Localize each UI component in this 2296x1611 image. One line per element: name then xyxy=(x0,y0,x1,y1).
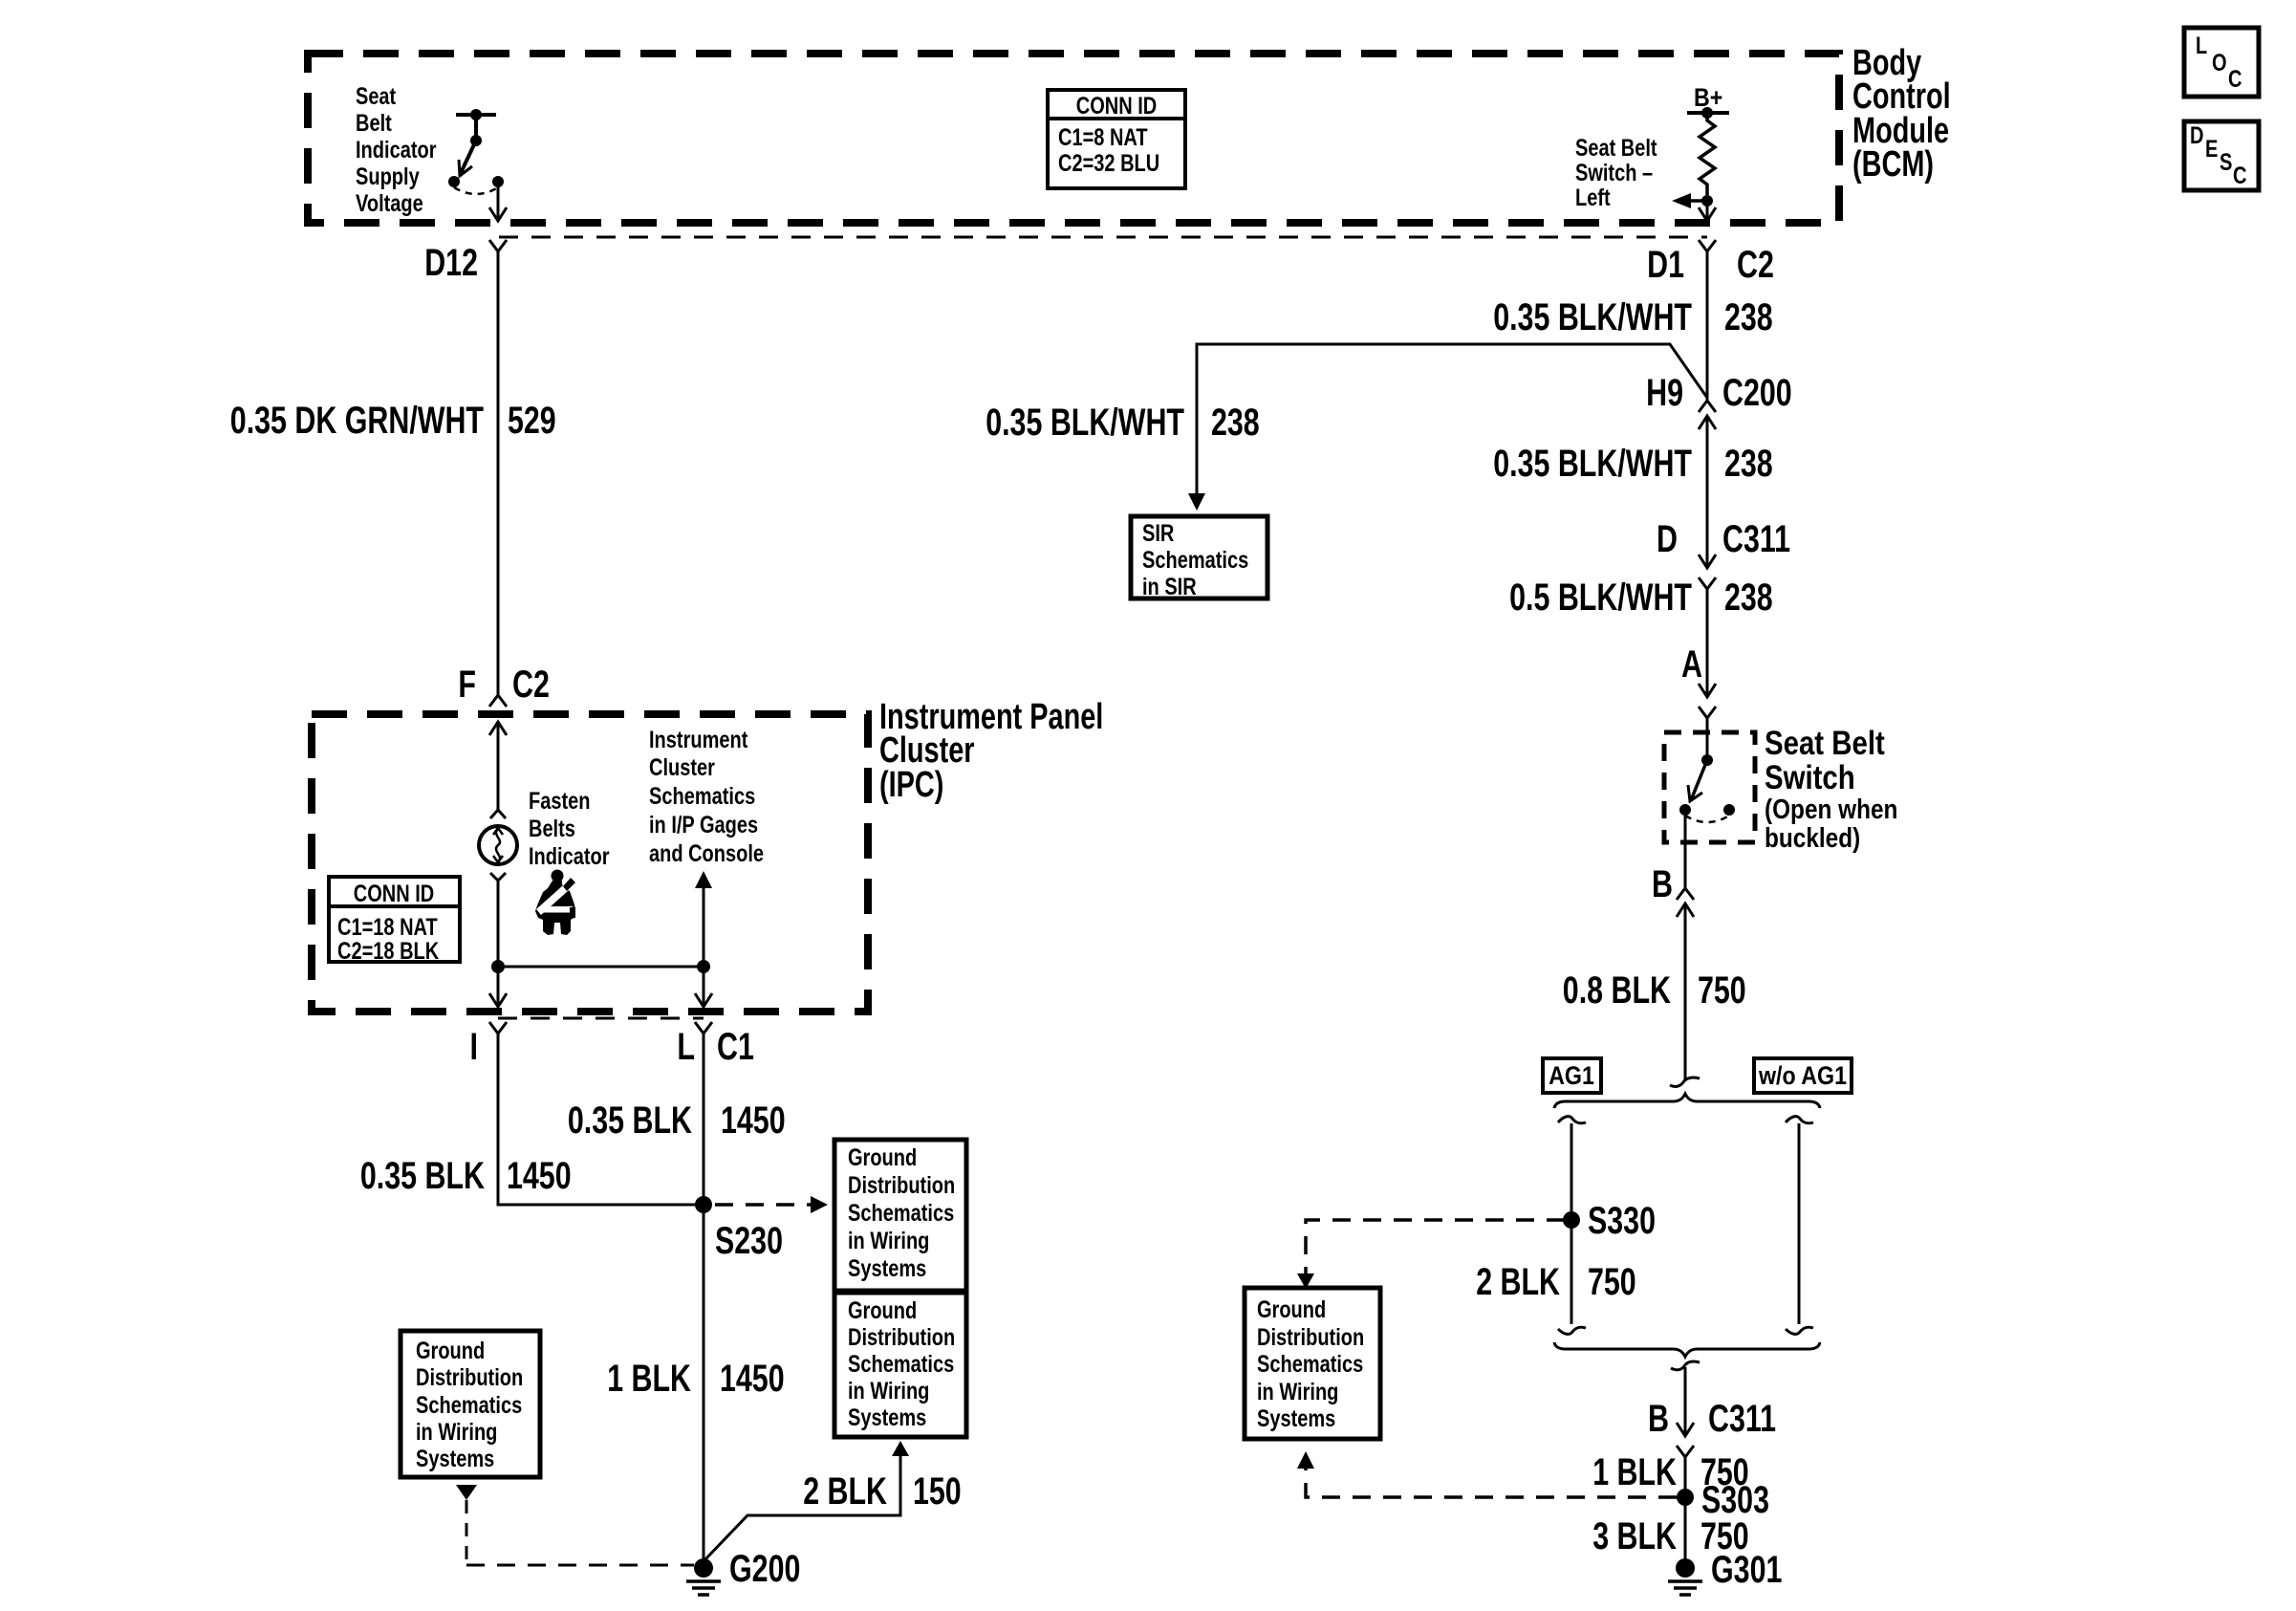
svg-text:529: 529 xyxy=(508,400,556,442)
svg-text:Systems: Systems xyxy=(848,1404,926,1431)
wire label 2 BLK 750 xyxy=(1476,1261,1636,1303)
svg-text:0.5 BLK/WHT: 0.5 BLK/WHT xyxy=(1509,577,1692,619)
svg-text:C2: C2 xyxy=(1737,244,1774,286)
svg-text:AG1: AG1 xyxy=(1549,1061,1594,1090)
wire label 0.35 BLK 1450 (pin L branch) xyxy=(568,1099,786,1142)
Ground Distribution Schematics box (2 BLK branch) xyxy=(834,1293,966,1437)
inline connector C200 pin H9 xyxy=(1699,401,1716,429)
BCM connector interface dashed line xyxy=(499,236,1707,239)
svg-text:1450: 1450 xyxy=(721,1099,786,1142)
svg-text:H9: H9 xyxy=(1646,372,1683,414)
svg-text:L: L xyxy=(677,1026,695,1068)
svg-text:Ground: Ground xyxy=(1257,1296,1326,1323)
switch SW1 seat belt indicator supply voltage xyxy=(448,109,504,194)
option brace bottom xyxy=(1554,1342,1820,1357)
svg-text:C311: C311 xyxy=(1722,518,1790,560)
AG1 option tag box xyxy=(1543,1058,1601,1093)
svg-text:Switch –: Switch – xyxy=(1575,160,1653,186)
Ground Distribution Schematics box (G200) xyxy=(401,1331,540,1477)
wire label 0.35 DK GRN/WHT 529 xyxy=(230,400,556,442)
svg-text:w/o AG1: w/o AG1 xyxy=(1758,1061,1847,1090)
inline connector at pin A xyxy=(1699,684,1716,718)
pin label B xyxy=(1652,863,1673,905)
svg-text:Cluster: Cluster xyxy=(649,754,715,781)
connector cups below pins I and L xyxy=(489,1022,712,1034)
svg-text:Systems: Systems xyxy=(848,1255,926,1282)
svg-text:in Wiring: in Wiring xyxy=(1257,1379,1338,1405)
ground G301 symbol xyxy=(1668,1558,1702,1595)
wire label 1 BLK 1450 xyxy=(607,1358,784,1400)
CONN ID table IPC xyxy=(329,877,460,965)
wire from switch common to pin B xyxy=(1684,816,1687,888)
svg-text:F: F xyxy=(458,664,476,706)
svg-text:238: 238 xyxy=(1211,402,1260,444)
wire label 2 BLK 150 xyxy=(803,1470,962,1513)
wire label 0.35 BLK 1450 (pin I branch) xyxy=(360,1155,572,1197)
svg-text:A: A xyxy=(1681,643,1702,686)
switch SW2 contacts and arm xyxy=(1679,754,1735,822)
svg-text:C311: C311 xyxy=(1708,1398,1776,1440)
svg-text:C1=8 NAT: C1=8 NAT xyxy=(1058,124,1148,151)
Fasten Belts Indicator label xyxy=(529,788,610,870)
wire label 0.35 BLK/WHT 238 (SIR branch) xyxy=(986,402,1260,444)
svg-text:Belt: Belt xyxy=(356,110,392,137)
svg-text:O: O xyxy=(2212,50,2227,76)
AG1 branch wire with squiggles xyxy=(1558,1117,1586,1335)
svg-text:C: C xyxy=(2233,163,2247,189)
svg-text:0.35 DK GRN/WHT: 0.35 DK GRN/WHT xyxy=(230,400,484,442)
B+ bus bar with node xyxy=(1687,107,1729,119)
svg-text:Distribution: Distribution xyxy=(848,1324,955,1351)
svg-text:(Open when: (Open when xyxy=(1765,795,1897,825)
svg-text:Fasten: Fasten xyxy=(529,788,591,815)
wire 238 BLK/WHT from D1 to C200 xyxy=(1706,251,1709,400)
svg-text:Distribution: Distribution xyxy=(848,1172,955,1199)
svg-text:2 BLK: 2 BLK xyxy=(1476,1261,1560,1303)
pin D12 label xyxy=(424,242,478,284)
dashed reference from S303 to ground distribution box xyxy=(1297,1451,1677,1497)
svg-text:Schematics: Schematics xyxy=(848,1351,954,1378)
pin labels I L C1 xyxy=(470,1026,754,1068)
svg-text:1450: 1450 xyxy=(507,1155,572,1197)
svg-text:0.35 BLK/WHT: 0.35 BLK/WHT xyxy=(1493,296,1692,338)
wire from cluster reference to pin L xyxy=(703,888,705,1007)
BCM title label xyxy=(1852,43,1951,185)
svg-text:0.35 BLK: 0.35 BLK xyxy=(568,1099,692,1142)
connector cup at D12 xyxy=(489,240,507,251)
svg-text:C1=18 NAT: C1=18 NAT xyxy=(337,914,438,941)
svg-text:C2=18 BLK: C2=18 BLK xyxy=(337,938,439,965)
svg-text:Seat: Seat xyxy=(356,83,397,110)
wire label 3 BLK 750 xyxy=(1592,1515,1749,1557)
svg-text:750: 750 xyxy=(1698,969,1746,1012)
svg-text:Voltage: Voltage xyxy=(356,190,423,217)
connector F C2 symbol xyxy=(489,695,507,735)
wire from lamp to junction and pin I xyxy=(497,881,500,1007)
svg-text:C1: C1 xyxy=(717,1026,754,1068)
svg-text:D1: D1 xyxy=(1647,244,1684,286)
wire from connector A into seat belt switch xyxy=(1706,718,1709,760)
LOC tab box xyxy=(2184,28,2259,97)
pin labels B C311 (lower) xyxy=(1648,1398,1776,1440)
option brace top xyxy=(1554,1094,1820,1108)
svg-text:B: B xyxy=(1648,1398,1669,1440)
ground G200 symbol xyxy=(686,1558,721,1595)
pin labels D C311 xyxy=(1657,518,1790,560)
IPC module box (dashed) xyxy=(312,714,868,1012)
svg-text:1450: 1450 xyxy=(720,1358,785,1400)
inline connector C311 pin D xyxy=(1699,555,1716,589)
BCM input node with left arrow xyxy=(1672,193,1713,208)
svg-text:Supply: Supply xyxy=(356,163,420,190)
svg-text:0.35 BLK: 0.35 BLK xyxy=(360,1155,485,1197)
Seat Belt Indicator Supply Voltage label xyxy=(356,83,437,217)
wire 238 BLK/WHT from C200 to C311 xyxy=(1706,416,1709,567)
svg-text:Distribution: Distribution xyxy=(1257,1324,1364,1351)
branch wire to SIR schematics with triangle xyxy=(1188,344,1707,511)
wire 150 BLK branch from G200 to ground distribution xyxy=(704,1441,909,1561)
svg-text:G301: G301 xyxy=(1711,1549,1782,1591)
svg-text:Systems: Systems xyxy=(416,1446,494,1472)
CONN ID table BCM xyxy=(1048,90,1185,188)
inline connector at pin B xyxy=(1677,888,1694,917)
svg-text:Switch: Switch xyxy=(1765,759,1855,796)
svg-text:2 BLK: 2 BLK xyxy=(803,1470,887,1513)
svg-text:Seat Belt: Seat Belt xyxy=(1765,725,1885,762)
Instrument Cluster Schematics note xyxy=(649,727,764,867)
svg-text:Ground: Ground xyxy=(416,1338,485,1364)
svg-text:(IPC): (IPC) xyxy=(879,765,943,805)
wire label 0.35 BLK/WHT 238 (C200 to C311) xyxy=(1493,443,1773,485)
splice S230 junction dot and label xyxy=(695,1196,783,1262)
svg-text:S230: S230 xyxy=(715,1220,783,1262)
svg-text:Schematics: Schematics xyxy=(1257,1351,1363,1378)
switch SW2 Seat Belt Switch box (dashed) xyxy=(1664,732,1755,842)
svg-text:Indicator: Indicator xyxy=(529,843,610,870)
wire 750 BLK 1 from C311 to S303 xyxy=(1684,1457,1687,1497)
resistor R1 seat belt switch pull-up xyxy=(1700,113,1715,195)
svg-text:and Console: and Console xyxy=(649,840,764,867)
wire 238 BLK/WHT 0.5 from C311 to switch pin A xyxy=(1706,589,1709,696)
ground G200 label xyxy=(729,1548,800,1590)
svg-text:Schematics: Schematics xyxy=(416,1392,522,1419)
wire from SW1 to BCM pin D12 with arrow xyxy=(489,182,507,221)
ground G301 label xyxy=(1711,1549,1782,1591)
IPC title label xyxy=(879,697,1103,805)
splice S303 junction dot and label xyxy=(1677,1479,1769,1521)
svg-text:in SIR: in SIR xyxy=(1142,574,1197,600)
SIR Schematics in SIR box xyxy=(1131,516,1267,600)
svg-text:238: 238 xyxy=(1724,296,1773,338)
Seat Belt Switch title xyxy=(1765,725,1897,854)
wire continuation squiggle above option brace xyxy=(1670,1078,1700,1086)
IPC bottom connector dashed line xyxy=(498,1017,704,1020)
reference triangle to cluster schematics xyxy=(695,871,712,888)
svg-text:C: C xyxy=(2228,66,2242,93)
seat belt pictogram icon xyxy=(535,870,576,936)
svg-text:Indicator: Indicator xyxy=(356,137,437,163)
svg-text:SIR: SIR xyxy=(1142,520,1174,547)
splice S330 junction dot and label xyxy=(1563,1200,1656,1242)
svg-text:Ground: Ground xyxy=(848,1144,917,1171)
svg-text:buckled): buckled) xyxy=(1765,823,1860,854)
IPC pin L arrow xyxy=(695,993,712,1007)
svg-text:0.8 BLK: 0.8 BLK xyxy=(1563,969,1671,1012)
pin labels D1 C2 xyxy=(1647,244,1774,286)
svg-text:238: 238 xyxy=(1724,443,1773,485)
dashed reference from S230 to ground distribution box xyxy=(715,1196,828,1213)
svg-text:0.35 BLK/WHT: 0.35 BLK/WHT xyxy=(986,402,1184,444)
w/o AG1 option tag box xyxy=(1754,1058,1852,1093)
lamp DS1 Fasten Belts Indicator xyxy=(479,810,517,881)
wire 1450 BLK from pin L to ground G200 xyxy=(703,1034,705,1561)
svg-text:D: D xyxy=(2190,122,2204,149)
svg-text:C200: C200 xyxy=(1722,372,1792,414)
svg-text:D: D xyxy=(1657,518,1678,560)
dashed reference from S330 to ground distribution box xyxy=(1297,1220,1565,1289)
svg-text:750: 750 xyxy=(1588,1261,1636,1303)
pin label A xyxy=(1681,643,1702,686)
svg-text:in I/P Gages: in I/P Gages xyxy=(649,812,758,838)
svg-text:Ground: Ground xyxy=(848,1297,917,1324)
wire 750 BLK 3 from S303 to G301 xyxy=(1684,1497,1687,1561)
wire label 0.35 BLK/WHT 238 (BCM to C200) xyxy=(1493,296,1773,338)
svg-text:E: E xyxy=(2205,136,2218,163)
svg-text:in Wiring: in Wiring xyxy=(848,1228,929,1254)
svg-text:I: I xyxy=(470,1026,479,1068)
pin F C2 labels xyxy=(458,664,550,706)
DESC tab box xyxy=(2184,121,2259,190)
wire label 0.8 BLK 750 xyxy=(1563,969,1746,1012)
svg-text:CONN ID: CONN ID xyxy=(354,881,435,907)
svg-text:L: L xyxy=(2196,33,2207,59)
wire from BCM node to pin D1 with arrow xyxy=(1699,201,1716,221)
svg-text:C2: C2 xyxy=(512,664,550,706)
wire label 0.5 BLK/WHT 238 xyxy=(1509,577,1773,619)
wire from option merge to connector C311 pin B xyxy=(1684,1367,1687,1435)
connector cup at D1 xyxy=(1699,240,1716,251)
svg-text:Distribution: Distribution xyxy=(416,1364,523,1391)
w/o AG1 branch wire with squiggles xyxy=(1786,1117,1813,1335)
wire 1450 BLK from pin I to splice S230 xyxy=(498,1034,704,1205)
svg-text:B: B xyxy=(1652,863,1673,905)
wire 750 BLK 0.8 from pin B to option split xyxy=(1684,903,1687,1081)
wire 529 DK GRN/WHT from D12 to IPC pin F xyxy=(497,251,500,694)
svg-text:Instrument: Instrument xyxy=(649,727,748,753)
svg-text:G200: G200 xyxy=(729,1548,800,1590)
svg-text:D12: D12 xyxy=(424,242,478,284)
pin labels H9 C200 xyxy=(1646,372,1792,414)
wire from connector F into IPC lamp xyxy=(497,722,500,810)
svg-text:Belts: Belts xyxy=(529,816,575,842)
Ground Distribution Schematics box (S230) xyxy=(834,1140,966,1291)
internal jumper wire with junction dots xyxy=(491,960,710,973)
svg-text:(BCM): (BCM) xyxy=(1852,144,1934,185)
svg-text:Schematics: Schematics xyxy=(1142,547,1248,574)
svg-text:150: 150 xyxy=(913,1470,962,1513)
svg-text:Schematics: Schematics xyxy=(649,783,755,810)
svg-text:1 BLK: 1 BLK xyxy=(607,1358,691,1400)
svg-text:C2=32 BLU: C2=32 BLU xyxy=(1058,150,1159,177)
svg-text:in Wiring: in Wiring xyxy=(848,1378,929,1404)
svg-text:Systems: Systems xyxy=(1257,1405,1335,1432)
svg-text:1 BLK: 1 BLK xyxy=(1592,1451,1677,1493)
Seat Belt Switch Left label xyxy=(1575,135,1657,211)
wire label 1 BLK 750 xyxy=(1592,1451,1749,1493)
Ground Distribution Schematics box (right column) xyxy=(1245,1288,1380,1439)
inline connector C311 pin B (lower) xyxy=(1677,1423,1694,1457)
svg-text:238: 238 xyxy=(1724,577,1773,619)
svg-text:Left: Left xyxy=(1575,185,1611,211)
svg-text:S330: S330 xyxy=(1588,1200,1656,1242)
svg-text:S: S xyxy=(2220,149,2232,176)
svg-text:Schematics: Schematics xyxy=(848,1200,954,1227)
svg-text:CONN ID: CONN ID xyxy=(1076,93,1158,120)
BCM module box (dashed) xyxy=(308,54,1839,223)
svg-text:in Wiring: in Wiring xyxy=(416,1419,497,1446)
svg-text:3 BLK: 3 BLK xyxy=(1592,1515,1677,1557)
wire continuation squiggle below option brace xyxy=(1671,1361,1700,1370)
svg-text:Seat Belt: Seat Belt xyxy=(1575,135,1657,162)
IPC pin I arrow xyxy=(489,993,507,1007)
svg-text:0.35 BLK/WHT: 0.35 BLK/WHT xyxy=(1493,443,1692,485)
B+ supply label xyxy=(1694,83,1722,112)
dashed reference from G200 box to ground G200 xyxy=(456,1485,694,1565)
